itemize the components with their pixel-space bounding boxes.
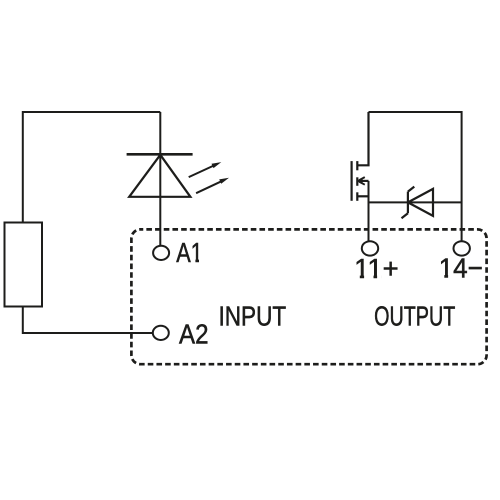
terminal A2: [153, 326, 169, 340]
resistor: [5, 223, 43, 307]
svg-text:A2: A2: [179, 319, 209, 350]
MOSFET drain tap: [357, 112, 368, 165]
terminal 14: [454, 241, 470, 255]
LED light arrow 2: [196, 178, 229, 193]
MOSFET channel top segment: [356, 161, 358, 170]
LED cathode bar: [127, 153, 193, 156]
terminal 11: [362, 241, 378, 255]
svg-text:14−: 14−: [439, 253, 483, 284]
wire input top loop: [23, 112, 161, 223]
zener triangle: [408, 189, 433, 216]
wire output top loop: [369, 112, 462, 241]
MOSFET channel middle segment: [356, 177, 358, 186]
LED triangle: [129, 155, 190, 197]
MOSFET gate line: [351, 161, 353, 201]
MOSFET channel bottom segment: [356, 192, 358, 201]
wire zener node: [369, 201, 462, 203]
LED light arrow 1: [189, 162, 222, 177]
svg-text:INPUT: INPUT: [219, 300, 287, 331]
relay module dashed outline: [131, 229, 486, 364]
svg-text:A1: A1: [176, 237, 203, 268]
MOSFET source tap: [357, 195, 368, 197]
zener cathode bar: [407, 192, 409, 214]
svg-text:OUTPUT: OUTPUT: [374, 300, 455, 331]
MOSFET: [352, 112, 369, 201]
MOSFET body tap with arrow: [358, 180, 369, 182]
terminal A1: [153, 246, 169, 260]
zener diode: [402, 187, 434, 219]
zener bottom tail: [402, 213, 408, 218]
wire LED anode to A1: [159, 112, 161, 246]
svg-text:11+: 11+: [354, 253, 399, 284]
wire MOSFET source to terminal 11: [368, 181, 370, 242]
zener top tail: [408, 187, 414, 192]
wire resistor to A2: [23, 307, 153, 334]
white patches to remove serif feet of digit 1 glyphs: [191, 259, 452, 280]
